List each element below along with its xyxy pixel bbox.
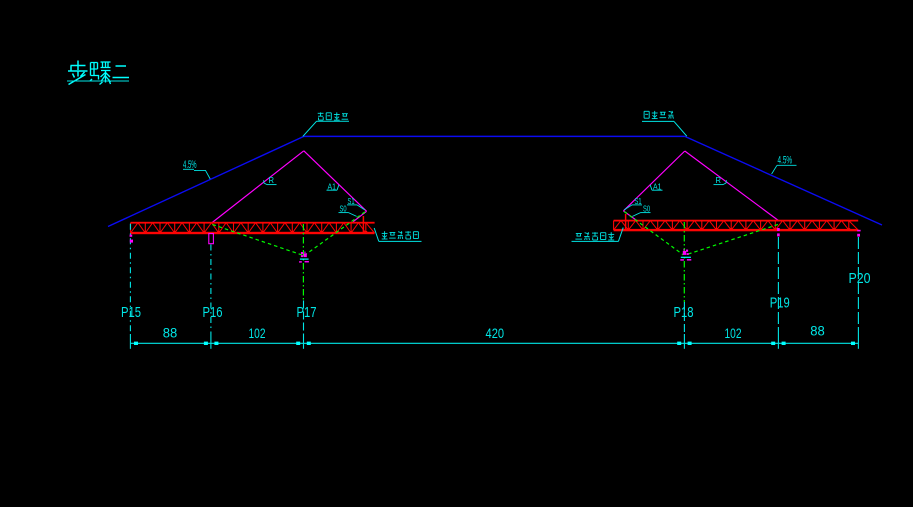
leader label left (deck segment) — [318, 112, 324, 114]
svg-text:R: R — [715, 176, 721, 185]
pier line P19 — [777, 237, 779, 334]
svg-text:P15: P15 — [121, 304, 141, 321]
bearing box P16 — [209, 234, 214, 244]
stay cable left tower to P16 — [212, 151, 304, 223]
svg-text:88: 88 — [810, 323, 825, 339]
svg-text:S0: S0 — [340, 204, 347, 214]
anchor block P17 — [301, 252, 303, 254]
tower centerline P18 — [683, 222, 685, 302]
stay cable left tower to mast — [304, 151, 367, 212]
svg-text:R: R — [268, 176, 274, 185]
tower centerline P17 — [302, 224, 304, 301]
stay line mast to anchor right — [624, 212, 683, 255]
svg-text:88: 88 — [163, 325, 178, 341]
bearing marks P19 — [777, 228, 780, 231]
svg-text:P16: P16 — [203, 304, 223, 321]
pier line P18 — [683, 302, 685, 334]
svg-text:102: 102 — [725, 325, 742, 341]
pier line P16 — [210, 245, 212, 335]
deck level line (mid span) — [304, 135, 685, 137]
anchor block P18 — [686, 250, 688, 252]
svg-text:420: 420 — [486, 325, 505, 341]
stay line mast to anchor left — [305, 212, 365, 255]
title 步骤二 — [68, 61, 88, 85]
svg-text:P20: P20 — [849, 270, 871, 287]
cable anchor hook left — [353, 211, 366, 221]
stay line P16 to anchor — [213, 225, 303, 256]
pier line P17 — [303, 301, 305, 335]
svg-text:P17: P17 — [297, 304, 317, 321]
bearing marks P20 — [857, 230, 860, 232]
cable anchor hook right — [623, 211, 637, 221]
stay cable right tower to P19 — [685, 151, 779, 221]
deck grade line left — [108, 136, 304, 226]
svg-text:P18: P18 — [674, 304, 694, 321]
svg-text:S0: S0 — [643, 204, 650, 214]
deck grade line right — [685, 136, 882, 225]
truss girder right (form traveler rail) — [614, 220, 859, 222]
dimension line — [130, 342, 858, 344]
dimension dot ticks — [134, 342, 138, 345]
stay line P19 to anchor — [686, 225, 778, 255]
leader label right (deck segment) — [643, 111, 645, 118]
bearing marks P15 — [130, 235, 133, 237]
svg-text:102: 102 — [249, 325, 266, 341]
pier line P20 — [857, 237, 859, 334]
svg-text:4.5%: 4.5% — [778, 155, 793, 167]
svg-text:P19: P19 — [770, 294, 790, 311]
label front-support hanging basket left — [384, 231, 386, 239]
truss girder left (form traveler rail) — [131, 222, 375, 224]
stay cable right tower to mast — [623, 151, 684, 211]
label front-support hanging basket right — [576, 233, 582, 235]
pier line P15 — [129, 224, 131, 334]
